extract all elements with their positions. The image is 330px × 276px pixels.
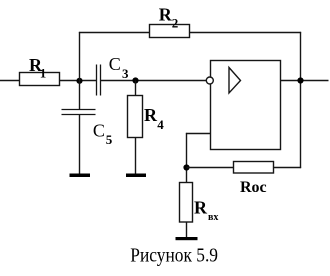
resistor Rvx (180, 183, 193, 223)
svg-text:Roc: Roc (240, 179, 267, 196)
svg-text:2: 2 (172, 16, 179, 31)
wire input (0, 80, 20, 82)
label R2 (159, 5, 179, 31)
svg-text:5: 5 (106, 132, 113, 147)
wire op-amp lower terminal (186, 133, 211, 135)
node D junction (297, 77, 303, 83)
wire node B to R4 (135, 81, 137, 96)
ground C5 (70, 174, 91, 178)
svg-text:вх: вх (208, 212, 218, 223)
wire node A vertical (79, 32, 81, 110)
node A junction (76, 78, 82, 84)
wire C5 to ground (79, 115, 81, 175)
wire right vertical (300, 32, 302, 168)
wire node C to Roc (187, 167, 234, 169)
svg-text:C: C (109, 54, 121, 74)
ground Rvx (176, 237, 198, 240)
svg-text:C: C (93, 121, 105, 141)
node C junction (183, 164, 189, 170)
svg-text:4: 4 (157, 117, 164, 132)
svg-text:1: 1 (40, 65, 47, 80)
label C3 (109, 54, 129, 81)
wire Rvx to ground (186, 222, 188, 238)
wire top left (79, 32, 150, 34)
capacitor C5 (62, 110, 96, 115)
label R4 (144, 105, 164, 132)
svg-text:R: R (194, 198, 208, 218)
svg-text:Рисунок 5.9: Рисунок 5.9 (130, 245, 218, 267)
ground R4 (126, 174, 146, 178)
wire Roc to right vertical (274, 167, 302, 169)
wire R4 to ground (135, 138, 137, 175)
resistor R2 (150, 25, 190, 38)
resistor Roc (234, 162, 274, 174)
resistor R1 (20, 73, 60, 86)
capacitor C3 (97, 65, 101, 96)
label Rvx (194, 198, 218, 223)
node B junction (132, 77, 138, 83)
wire top right (190, 32, 302, 34)
op-amp U1 (206, 61, 280, 150)
svg-text:R: R (159, 5, 173, 25)
wire lower terminal down to node C (186, 133, 188, 183)
svg-text:3: 3 (122, 66, 129, 81)
resistor R4 (128, 96, 143, 138)
svg-text:R: R (144, 105, 158, 125)
wire R1 to node A (60, 80, 97, 82)
wire op-amp output (281, 80, 329, 82)
label R1 (29, 55, 46, 81)
label C5 (93, 121, 113, 148)
wire C3 to op-amp input (101, 80, 206, 82)
